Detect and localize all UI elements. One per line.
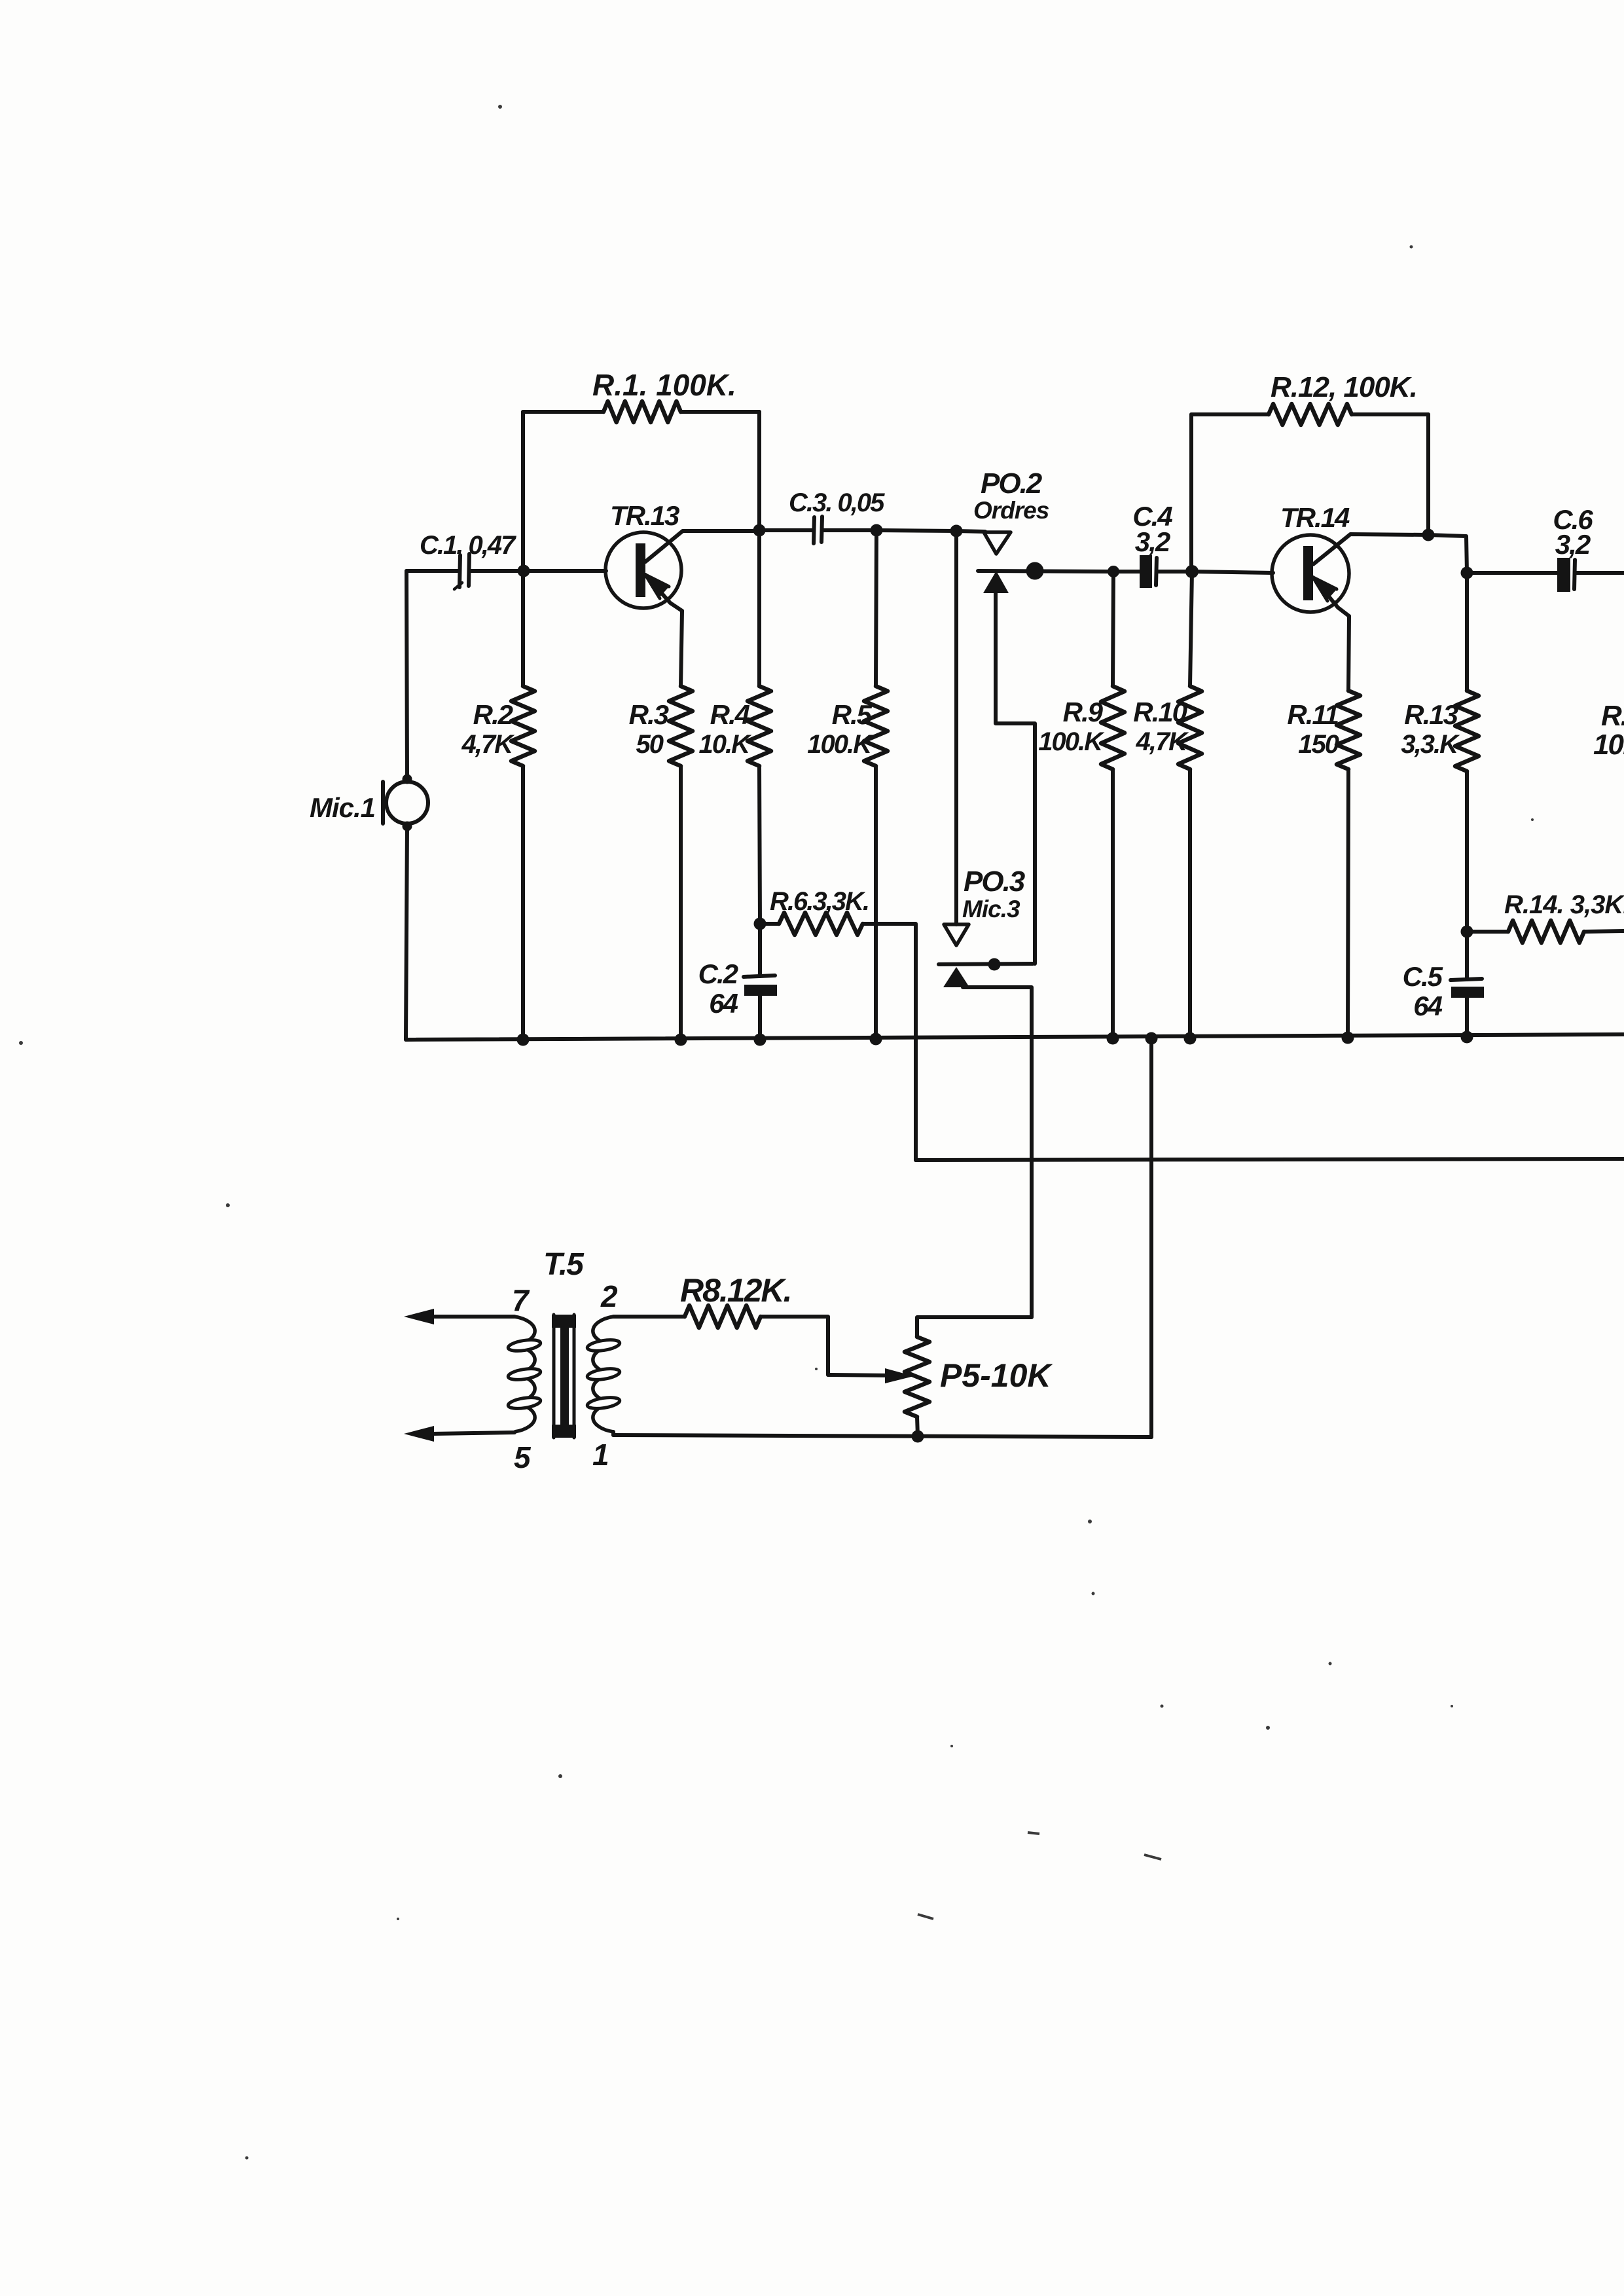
node rail R9 bbox=[1107, 1032, 1119, 1045]
svg-text:50: 50 bbox=[636, 730, 664, 759]
label pin 2 bbox=[600, 1279, 618, 1313]
wire secondary bottom lead bbox=[611, 1432, 615, 1435]
svg-text:TR.14: TR.14 bbox=[1280, 502, 1350, 533]
transistor TR13 circle bbox=[605, 532, 681, 608]
wire R12 right vertical bbox=[1426, 414, 1430, 535]
node PO2 branch bbox=[950, 525, 963, 538]
capacitor C6 plates bbox=[1557, 558, 1575, 592]
wire PO2 node to open triangle bbox=[956, 531, 985, 532]
jack PO.3 filled triangle bbox=[943, 967, 969, 987]
wire input corner to C1 bbox=[406, 569, 458, 573]
node base of TR13 / R2 top bbox=[518, 565, 530, 577]
svg-text:100.K: 100.K bbox=[1038, 727, 1105, 756]
wire R3 bottom bbox=[679, 766, 683, 1040]
wire R9 node to C4 bbox=[1113, 570, 1140, 574]
wire node to C6 bbox=[1467, 571, 1558, 575]
resistor R11 bbox=[1337, 691, 1360, 769]
wire node to TR14 base bbox=[1192, 572, 1273, 573]
wire mic top bbox=[406, 571, 407, 779]
capacitor C5 plates bbox=[1451, 979, 1484, 998]
wire C5 bottom bbox=[1465, 998, 1469, 1037]
capacitor C3 plates bbox=[814, 517, 822, 543]
resistor R1 bbox=[604, 401, 681, 422]
jack PO.2 open triangle bbox=[984, 532, 1011, 554]
svg-text:R8.12K.: R8.12K. bbox=[680, 1272, 791, 1309]
svg-text:R.13: R.13 bbox=[1404, 699, 1458, 730]
svg-text:R.4: R.4 bbox=[710, 699, 750, 730]
wire R14 left bbox=[1467, 930, 1508, 934]
label C2 bbox=[698, 958, 738, 1019]
label T.5 bbox=[543, 1247, 585, 1282]
arrow primary top bbox=[404, 1309, 434, 1324]
arrow primary bottom bbox=[404, 1426, 434, 1442]
wire node to TR13 base bbox=[524, 569, 606, 573]
svg-text:R.1: R.1 bbox=[1601, 700, 1624, 732]
label PO.2 bbox=[981, 467, 1043, 500]
transformer T5 primary winding bbox=[507, 1317, 541, 1432]
wire R4 to R6 node bbox=[759, 766, 760, 924]
node R6 branch bbox=[754, 918, 767, 930]
svg-text:R.3: R.3 bbox=[629, 699, 669, 730]
svg-text:T.5: T.5 bbox=[543, 1247, 585, 1282]
resistor R8 bbox=[685, 1305, 761, 1328]
label Mic.1 bbox=[310, 792, 375, 823]
node C6 / R13 junction bbox=[1461, 567, 1473, 579]
transistor TR14 base bar bbox=[1303, 546, 1313, 600]
wire C4 to R10/R12 node bbox=[1157, 570, 1192, 574]
node PO.2 contact dot bbox=[1026, 562, 1044, 580]
microphone Mic.1 symbol bbox=[383, 774, 428, 831]
label pin 7 bbox=[512, 1283, 530, 1317]
label R9 bbox=[1038, 697, 1105, 756]
wire wiper arm bbox=[828, 1375, 895, 1376]
wire PO.3 wiper to pot P5 bbox=[917, 987, 1032, 1337]
label Mic.3 bbox=[962, 896, 1020, 922]
resistor R9 bbox=[1101, 686, 1125, 769]
wire R4 top bbox=[757, 530, 761, 686]
label R2 bbox=[461, 699, 516, 759]
label R4 bbox=[699, 699, 753, 759]
transformer T5 core bbox=[552, 1315, 576, 1438]
label cut resistor at page edge bbox=[1593, 700, 1624, 761]
wire R2 top bbox=[521, 571, 525, 686]
svg-text:C.1. 0,47: C.1. 0,47 bbox=[420, 531, 516, 560]
wire long line to right edge bbox=[916, 1159, 1624, 1160]
svg-text:4,7K: 4,7K bbox=[461, 730, 516, 759]
wire R5 node to PO2 node bbox=[876, 530, 956, 531]
wire PO2 node down to PO3 bbox=[954, 531, 958, 924]
svg-text:R.5: R.5 bbox=[832, 699, 873, 730]
wire R9 vertical bbox=[1113, 572, 1113, 686]
wire C1 to base node bbox=[469, 569, 524, 573]
wire feed down from rail bbox=[1149, 1038, 1153, 1437]
wire R13 to R14 node bbox=[1465, 771, 1469, 932]
resistor R14 bbox=[1508, 920, 1584, 943]
resistor R4 bbox=[748, 686, 771, 766]
label P5 value P5-10K bbox=[940, 1357, 1053, 1394]
wire PO.2 wiper drop bbox=[996, 593, 1035, 964]
svg-text:3,2: 3,2 bbox=[1135, 526, 1170, 557]
jack PO.3 contact line bbox=[939, 964, 1033, 964]
arrow wiper of P5 bbox=[885, 1368, 914, 1383]
transistor TR14 emitter arrow bbox=[1313, 575, 1349, 616]
transistor TR14 collector bbox=[1313, 534, 1428, 564]
wire R1 left vertical bbox=[521, 412, 525, 571]
wire primary bottom lead bbox=[432, 1432, 514, 1434]
jack PO.3 open triangle bbox=[944, 924, 969, 945]
wire PO.2 tip line bbox=[978, 571, 1113, 572]
wire collector to C6 corner bbox=[1428, 535, 1467, 573]
wire R5 bottom bbox=[874, 766, 878, 1040]
wire R6 left bbox=[760, 922, 779, 926]
capacitor C1 plates bbox=[454, 554, 469, 589]
svg-text:4,7K: 4,7K bbox=[1136, 727, 1190, 756]
node rail R2 bbox=[517, 1034, 530, 1046]
label PO.3 bbox=[964, 866, 1025, 898]
svg-text:C.5: C.5 bbox=[1403, 961, 1443, 992]
wire TR14 emitter down to R11 bbox=[1348, 616, 1349, 691]
jack PO.2 filled triangle bbox=[983, 571, 1009, 593]
svg-text:10.1: 10.1 bbox=[1593, 729, 1624, 761]
svg-text:R.9: R.9 bbox=[1063, 697, 1104, 727]
resistor R13 bbox=[1455, 691, 1479, 771]
node rail R11 bbox=[1342, 1032, 1354, 1044]
potentiometer P5 bbox=[905, 1337, 929, 1417]
wire R9 bottom bbox=[1111, 769, 1115, 1040]
svg-text:C.3. 0,05: C.3. 0,05 bbox=[789, 488, 885, 517]
wire R10 top bbox=[1190, 572, 1192, 686]
node TR14 collector junction bbox=[1422, 529, 1435, 541]
wire R13 node to C5 bbox=[1465, 932, 1469, 979]
svg-text:100.K: 100.K bbox=[807, 730, 874, 759]
svg-text:3,3.K: 3,3.K bbox=[1401, 730, 1460, 759]
svg-text:10.K: 10.K bbox=[699, 730, 753, 759]
svg-text:3,2: 3,2 bbox=[1555, 529, 1591, 560]
node R10/R12 junction bbox=[1185, 565, 1199, 578]
node R14 branch bbox=[1461, 926, 1473, 938]
node TR13 collector junction bbox=[753, 524, 766, 537]
wire TR13 emitter down to R3 bbox=[681, 611, 682, 686]
node rail R5 bbox=[870, 1033, 882, 1046]
label R5 bbox=[807, 699, 874, 759]
resistor R6 bbox=[779, 913, 863, 935]
wire P5 bottom bbox=[917, 1417, 918, 1436]
svg-text:Mic.3: Mic.3 bbox=[962, 896, 1020, 922]
label R14 value R.14. 3,3K. bbox=[1504, 890, 1624, 919]
transistor TR13 collector bbox=[645, 531, 759, 562]
wire R5 top bbox=[876, 530, 876, 686]
resistor R2 bbox=[511, 686, 535, 766]
label R8 value R8.12K. bbox=[680, 1272, 791, 1309]
svg-text:TR.13: TR.13 bbox=[610, 500, 679, 531]
label TR.13 bbox=[610, 500, 679, 531]
wire R2 bottom bbox=[521, 766, 525, 1040]
svg-text:P5-10K: P5-10K bbox=[940, 1357, 1053, 1394]
transistor TR13 base bar bbox=[636, 543, 645, 597]
wire C6 to page edge bbox=[1575, 571, 1624, 575]
resistor R3 bbox=[669, 686, 693, 766]
node R9 top bbox=[1108, 566, 1119, 577]
label R1 value R.1. 100K. bbox=[592, 368, 736, 402]
svg-text:R.10: R.10 bbox=[1133, 697, 1187, 727]
capacitor C2 plates bbox=[744, 975, 777, 996]
wire R4 node to C2 bbox=[758, 924, 762, 976]
node rail R4 bbox=[754, 1034, 767, 1046]
node rail feed to transformer bbox=[1146, 1032, 1158, 1045]
wire R1 top right segment bbox=[681, 410, 759, 414]
label pin 1 bbox=[592, 1438, 608, 1472]
node PO.3 contact bbox=[988, 958, 1001, 971]
transistor TR13 emitter arrow bbox=[645, 573, 682, 611]
node rail R10 bbox=[1184, 1032, 1197, 1045]
node R5 top bbox=[871, 524, 883, 537]
svg-text:Ordres: Ordres bbox=[973, 497, 1049, 524]
wire ground rail bbox=[406, 1034, 1624, 1040]
svg-text:64: 64 bbox=[709, 988, 738, 1019]
label R12 value R.12, 100K. bbox=[1271, 371, 1417, 403]
resistor R10 bbox=[1178, 686, 1202, 769]
svg-text:R.2: R.2 bbox=[473, 699, 513, 730]
label R6 value R.6.3,3K. bbox=[770, 887, 869, 916]
wire R13 top bbox=[1465, 573, 1469, 691]
resistor R12 bbox=[1269, 404, 1352, 425]
resistor R5 bbox=[864, 686, 888, 766]
svg-text:2: 2 bbox=[600, 1279, 618, 1313]
node rail R3 bbox=[675, 1034, 687, 1046]
wire C2 bottom bbox=[758, 996, 762, 1040]
node rail R13 bbox=[1461, 1031, 1473, 1044]
label R10 bbox=[1133, 697, 1189, 756]
svg-text:PO.3: PO.3 bbox=[964, 866, 1025, 898]
node pot P5 bottom bbox=[912, 1430, 924, 1443]
capacitor C4 plates bbox=[1140, 555, 1157, 588]
svg-text:R.1. 100K.: R.1. 100K. bbox=[592, 368, 736, 402]
wire secondary top to R8 bbox=[613, 1315, 685, 1319]
wire R12 top left segment bbox=[1191, 412, 1269, 416]
label C1 value C.1. 0,47 bbox=[420, 531, 516, 560]
svg-text:64: 64 bbox=[1413, 991, 1442, 1021]
label C4 bbox=[1132, 501, 1172, 557]
wire R11 bottom bbox=[1348, 769, 1348, 1038]
wire R6 right + down bbox=[863, 924, 916, 1160]
wire R10 bottom bbox=[1188, 769, 1192, 1040]
label R11 bbox=[1287, 699, 1339, 759]
label C6 bbox=[1553, 504, 1593, 560]
svg-text:C.2: C.2 bbox=[698, 958, 738, 989]
svg-text:1: 1 bbox=[592, 1438, 608, 1472]
transistor TR14 circle bbox=[1272, 535, 1349, 612]
svg-text:R.12, 100K.: R.12, 100K. bbox=[1271, 371, 1417, 403]
label pin 5 bbox=[514, 1440, 532, 1474]
svg-text:R.11: R.11 bbox=[1287, 699, 1338, 730]
label R13 bbox=[1401, 699, 1460, 759]
svg-text:Mic.1: Mic.1 bbox=[310, 792, 375, 823]
label TR.14 bbox=[1280, 502, 1350, 533]
transformer T5 secondary winding bbox=[586, 1317, 621, 1432]
svg-text:150: 150 bbox=[1298, 730, 1339, 759]
wire mic bottom bbox=[406, 826, 407, 1040]
wire R14 right to page edge bbox=[1584, 931, 1624, 932]
wire primary top lead bbox=[432, 1315, 514, 1319]
label Ordres bbox=[973, 497, 1049, 524]
wire R1 top left segment bbox=[523, 410, 604, 414]
wire R12 left vertical bbox=[1189, 414, 1193, 572]
svg-text:5: 5 bbox=[514, 1440, 532, 1474]
wire R1 right vertical bbox=[757, 412, 761, 530]
label C5 bbox=[1403, 961, 1443, 1021]
svg-text:7: 7 bbox=[512, 1283, 530, 1317]
wire C3 to R5 node bbox=[822, 528, 876, 532]
wire R8 to wiper corner bbox=[761, 1317, 828, 1375]
wire R12 top right segment bbox=[1352, 412, 1428, 416]
svg-text:R.6.3,3K.: R.6.3,3K. bbox=[770, 887, 869, 916]
svg-text:R.14. 3,3K.: R.14. 3,3K. bbox=[1504, 890, 1624, 919]
label C3 value C.3. 0,05 bbox=[789, 488, 885, 517]
wire secondary bottom run bbox=[613, 1435, 1151, 1437]
wire collector node to C3 bbox=[759, 528, 814, 532]
svg-text:PO.2: PO.2 bbox=[981, 467, 1043, 500]
label R3 bbox=[629, 699, 669, 759]
